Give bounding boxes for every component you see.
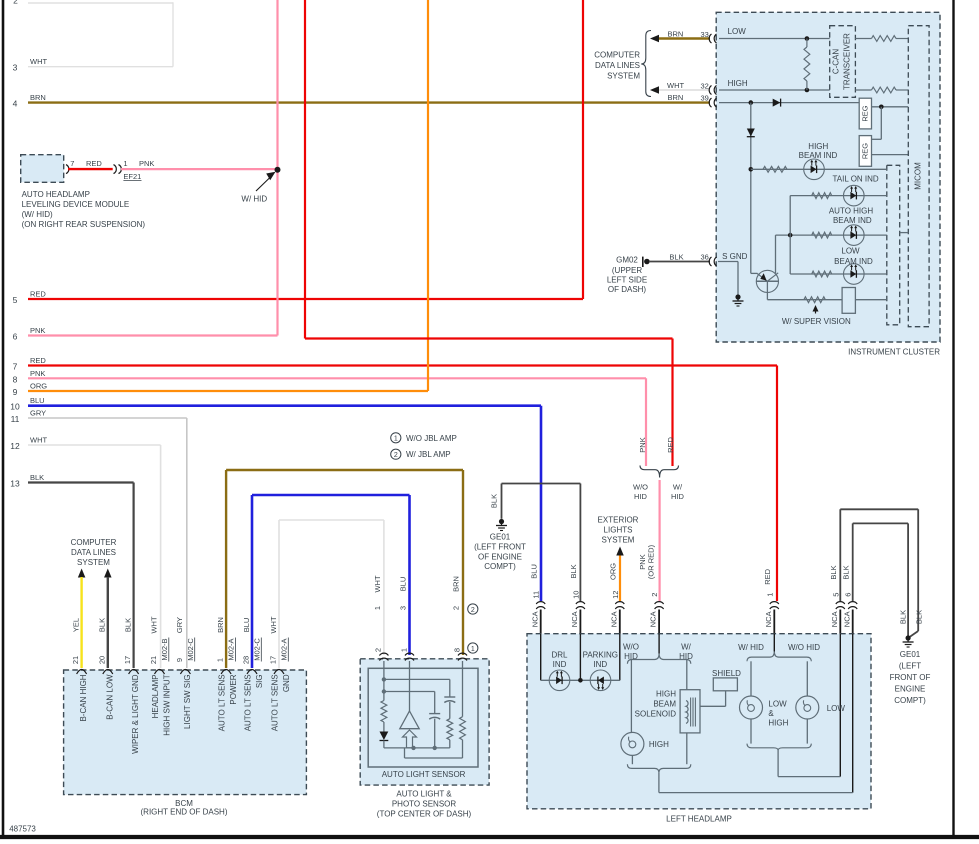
svg-text:B-CAN HIGH: B-CAN HIGH	[79, 674, 88, 721]
svg-text:S GND: S GND	[722, 252, 748, 261]
svg-text:BLU: BLU	[242, 618, 251, 633]
svg-text:11: 11	[11, 414, 20, 424]
svg-text:COMPT): COMPT)	[484, 562, 516, 571]
svg-text:NCA: NCA	[609, 611, 618, 627]
svg-text:DATA LINES: DATA LINES	[71, 548, 116, 557]
svg-text:TAIL ON IND: TAIL ON IND	[832, 175, 878, 184]
svg-text:AUTO LT SENS: AUTO LT SENS	[271, 674, 280, 731]
svg-text:HIGH: HIGH	[768, 718, 788, 727]
svg-text:LOW: LOW	[728, 27, 747, 36]
svg-text:C-CAN: C-CAN	[832, 49, 841, 75]
svg-text:ORG: ORG	[30, 382, 47, 391]
svg-text:BLK: BLK	[841, 565, 850, 579]
svg-text:PHOTO SENSOR: PHOTO SENSOR	[392, 800, 457, 809]
svg-text:17: 17	[269, 656, 278, 664]
svg-text:HIGH: HIGH	[808, 142, 828, 151]
svg-text:TRANSCEIVER: TRANSCEIVER	[843, 33, 852, 90]
svg-text:13: 13	[10, 479, 20, 489]
svg-text:(UPPER: (UPPER	[612, 266, 642, 275]
svg-text:WHT: WHT	[667, 81, 684, 90]
svg-text:9: 9	[175, 658, 184, 662]
svg-text:W/ JBL AMP: W/ JBL AMP	[406, 450, 451, 459]
svg-text:YEL: YEL	[71, 618, 80, 632]
svg-text:W/ HID: W/ HID	[738, 643, 764, 652]
svg-text:IND: IND	[593, 660, 607, 669]
svg-text:(LEFT FRONT: (LEFT FRONT	[474, 543, 526, 552]
svg-text:SHIELD: SHIELD	[712, 669, 741, 678]
svg-text:AUTO LIGHT SENSOR: AUTO LIGHT SENSOR	[382, 770, 466, 779]
svg-text:5: 5	[13, 295, 18, 305]
svg-text:&: &	[768, 709, 774, 718]
svg-text:PNK: PNK	[30, 369, 45, 378]
svg-text:6: 6	[844, 593, 853, 597]
svg-text:SYSTEM: SYSTEM	[77, 558, 110, 567]
svg-text:GRY: GRY	[175, 617, 184, 633]
svg-text:M02-A: M02-A	[279, 638, 288, 660]
svg-text:BLK: BLK	[669, 252, 683, 261]
svg-text:WHT: WHT	[373, 575, 382, 592]
svg-text:HIGH: HIGH	[649, 740, 669, 749]
svg-text:FRONT OF: FRONT OF	[890, 673, 931, 682]
svg-text:21: 21	[71, 656, 80, 664]
svg-text:EF21: EF21	[123, 172, 141, 181]
svg-text:33: 33	[701, 30, 709, 39]
svg-text:SYSTEM: SYSTEM	[607, 72, 640, 81]
svg-text:BLK: BLK	[899, 610, 908, 624]
svg-text:17: 17	[123, 656, 132, 664]
svg-text:BLK: BLK	[30, 473, 44, 482]
svg-text:LOW: LOW	[827, 704, 846, 713]
svg-text:39: 39	[701, 94, 709, 103]
svg-text:M02-A: M02-A	[227, 638, 236, 660]
svg-text:DRL: DRL	[551, 651, 568, 660]
svg-text:NCA: NCA	[649, 611, 658, 627]
svg-text:11: 11	[532, 591, 541, 599]
svg-text:(TOP CENTER OF DASH): (TOP CENTER OF DASH)	[377, 810, 472, 819]
svg-text:REG: REG	[861, 143, 870, 159]
svg-text:AUTO LT SENS: AUTO LT SENS	[218, 674, 227, 731]
svg-text:HIGH SW INPUT: HIGH SW INPUT	[163, 674, 172, 735]
svg-text:MICOM: MICOM	[914, 162, 923, 190]
svg-text:7: 7	[70, 159, 74, 168]
svg-text:EXTERIOR: EXTERIOR	[598, 516, 639, 525]
svg-text:8: 8	[452, 648, 461, 652]
svg-text:ENGINE: ENGINE	[895, 685, 926, 694]
svg-text:1: 1	[216, 658, 225, 662]
svg-text:GE01: GE01	[490, 533, 511, 542]
svg-text:RED: RED	[30, 356, 46, 365]
svg-text:BLU: BLU	[30, 396, 45, 405]
svg-text:6: 6	[13, 332, 18, 342]
svg-text:SYSTEM: SYSTEM	[602, 536, 635, 545]
svg-text:RED: RED	[666, 437, 675, 453]
svg-text:M02-C: M02-C	[252, 638, 261, 661]
svg-text:INSTRUMENT CLUSTER: INSTRUMENT CLUSTER	[848, 347, 940, 356]
svg-text:9: 9	[13, 387, 18, 397]
svg-text:PNK: PNK	[30, 326, 45, 335]
svg-text:GM02: GM02	[616, 256, 638, 265]
svg-text:NCA: NCA	[842, 611, 851, 627]
svg-text:487573: 487573	[9, 824, 36, 833]
svg-text:POWER: POWER	[229, 674, 238, 704]
svg-text:COMPT): COMPT)	[894, 696, 926, 705]
svg-text:OF ENGINE: OF ENGINE	[478, 553, 522, 562]
svg-text:AUTO HIGH: AUTO HIGH	[829, 206, 874, 215]
svg-text:NCA: NCA	[530, 611, 539, 627]
svg-text:7: 7	[13, 362, 18, 372]
svg-text:HIGH: HIGH	[728, 79, 748, 88]
svg-text:PARKING: PARKING	[583, 651, 618, 660]
svg-text:LIGHT SW SIG: LIGHT SW SIG	[183, 674, 192, 729]
svg-text:1: 1	[373, 606, 382, 610]
svg-text:2: 2	[650, 593, 659, 597]
svg-text:1: 1	[765, 593, 774, 597]
svg-text:WHT: WHT	[269, 616, 278, 633]
svg-text:W/ HID: W/ HID	[241, 194, 267, 203]
svg-text:HIGH: HIGH	[656, 690, 676, 699]
svg-text:B-CAN LOW: B-CAN LOW	[105, 674, 114, 720]
svg-text:1: 1	[123, 159, 127, 168]
svg-text:BLK: BLK	[915, 610, 924, 624]
svg-text:21: 21	[149, 656, 158, 664]
svg-text:BEAM IND: BEAM IND	[833, 216, 872, 225]
svg-text:PNK: PNK	[638, 437, 647, 452]
svg-text:BRN: BRN	[216, 617, 225, 633]
svg-text:LOW: LOW	[841, 247, 860, 256]
svg-text:M02-C: M02-C	[186, 638, 195, 661]
svg-text:BLK: BLK	[569, 564, 578, 578]
svg-text:BLK: BLK	[98, 618, 107, 632]
svg-text:W/O JBL AMP: W/O JBL AMP	[406, 434, 457, 443]
svg-text:5: 5	[831, 593, 840, 597]
svg-text:W/O HID: W/O HID	[788, 643, 820, 652]
svg-text:BRN: BRN	[668, 93, 684, 102]
svg-text:32: 32	[701, 82, 709, 91]
svg-text:(OR RED): (OR RED)	[647, 544, 656, 579]
svg-text:IND: IND	[553, 660, 567, 669]
svg-text:BRN: BRN	[668, 29, 684, 38]
svg-text:GE01: GE01	[900, 650, 921, 659]
svg-text:BLK: BLK	[123, 618, 132, 632]
svg-text:W/: W/	[673, 483, 683, 492]
svg-text:BLK: BLK	[489, 494, 498, 508]
svg-text:20: 20	[97, 656, 106, 664]
svg-text:WHT: WHT	[30, 57, 47, 66]
svg-text:BLU: BLU	[399, 577, 408, 592]
svg-text:COMPUTER: COMPUTER	[594, 51, 640, 60]
svg-text:12: 12	[10, 441, 20, 451]
svg-text:RED: RED	[763, 568, 772, 584]
svg-text:WHT: WHT	[149, 616, 158, 633]
svg-text:2: 2	[13, 0, 18, 6]
svg-text:2: 2	[471, 607, 475, 614]
svg-text:BEAM IND: BEAM IND	[834, 257, 873, 266]
svg-text:1: 1	[394, 436, 398, 443]
svg-text:COMPUTER: COMPUTER	[71, 538, 117, 547]
svg-text:(RIGHT END OF DASH): (RIGHT END OF DASH)	[141, 808, 228, 817]
svg-text:LEVELING DEVICE MODULE: LEVELING DEVICE MODULE	[22, 200, 130, 209]
svg-text:HID: HID	[671, 492, 685, 501]
svg-text:RED: RED	[86, 159, 102, 168]
svg-text:ORG: ORG	[608, 563, 617, 580]
svg-text:W/ SUPER VISION: W/ SUPER VISION	[782, 317, 851, 326]
svg-text:(LEFT: (LEFT	[899, 662, 921, 671]
svg-text:HEADLAMP: HEADLAMP	[151, 674, 160, 718]
svg-text:BLK: BLK	[829, 565, 838, 579]
svg-text:GND: GND	[282, 674, 291, 692]
svg-text:BEAM: BEAM	[653, 700, 676, 709]
svg-text:2: 2	[452, 606, 461, 610]
svg-text:3: 3	[13, 63, 18, 73]
svg-text:GRY: GRY	[30, 409, 46, 418]
svg-text:1: 1	[399, 648, 408, 652]
svg-text:2: 2	[394, 452, 398, 459]
svg-text:RED: RED	[30, 290, 46, 299]
svg-text:(ON RIGHT REAR SUSPENSION): (ON RIGHT REAR SUSPENSION)	[22, 220, 146, 229]
svg-text:NCA: NCA	[830, 611, 839, 627]
svg-text:WHT: WHT	[30, 436, 47, 445]
svg-text:WIPER & LIGHT GND: WIPER & LIGHT GND	[131, 674, 140, 754]
svg-text:LEFT SIDE: LEFT SIDE	[607, 275, 647, 284]
svg-text:AUTO LT SENS: AUTO LT SENS	[244, 674, 253, 731]
svg-text:SOLENOID: SOLENOID	[635, 710, 677, 719]
svg-text:1: 1	[471, 646, 475, 653]
svg-text:2: 2	[374, 648, 383, 652]
svg-text:8: 8	[13, 374, 18, 384]
svg-text:W/: W/	[681, 643, 692, 652]
svg-text:4: 4	[13, 99, 18, 109]
svg-text:PNK: PNK	[139, 159, 154, 168]
svg-text:REG: REG	[861, 105, 870, 121]
svg-text:NCA: NCA	[570, 611, 579, 627]
svg-text:HID: HID	[634, 492, 648, 501]
svg-text:SIG: SIG	[255, 674, 264, 688]
svg-text:3: 3	[399, 606, 408, 610]
svg-text:OF DASH): OF DASH)	[608, 285, 647, 294]
svg-text:BRN: BRN	[452, 576, 461, 592]
svg-text:BLU: BLU	[529, 564, 538, 579]
svg-text:DATA LINES: DATA LINES	[595, 61, 640, 70]
svg-text:(W/ HID): (W/ HID)	[22, 210, 53, 219]
svg-text:10: 10	[571, 591, 580, 599]
svg-text:12: 12	[611, 591, 620, 599]
svg-text:AUTO HEADLAMP: AUTO HEADLAMP	[22, 190, 90, 199]
svg-text:LEFT HEADLAMP: LEFT HEADLAMP	[666, 814, 732, 823]
svg-text:W/O: W/O	[633, 483, 648, 492]
svg-text:W/O: W/O	[623, 643, 639, 652]
svg-text:36: 36	[701, 253, 709, 262]
svg-text:M02-B: M02-B	[160, 638, 169, 660]
svg-text:BRN: BRN	[30, 93, 46, 102]
svg-text:10: 10	[10, 402, 20, 412]
svg-text:LOW: LOW	[768, 699, 787, 708]
svg-text:AUTO LIGHT &: AUTO LIGHT &	[396, 790, 452, 799]
svg-text:NCA: NCA	[764, 611, 773, 627]
svg-text:28: 28	[242, 656, 251, 664]
svg-text:BEAM IND: BEAM IND	[799, 151, 838, 160]
svg-text:LIGHTS: LIGHTS	[604, 526, 633, 535]
